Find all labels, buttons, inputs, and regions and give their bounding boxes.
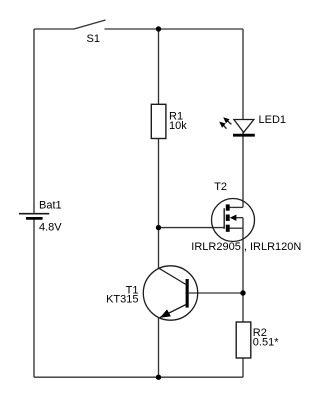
node gate junction xyxy=(156,225,161,230)
resistor R2 xyxy=(236,322,251,358)
battery Bat1 long plate (+) xyxy=(19,213,49,215)
wire R2 bottom lead xyxy=(242,358,244,377)
wire T1 emitter to bottom rail xyxy=(158,318,160,377)
resistor R1 xyxy=(151,104,166,138)
wire T1 base lead xyxy=(189,292,243,294)
wire top rail right segment xyxy=(105,28,244,30)
svg-text:IRLR2905 , IRLR120N: IRLR2905 , IRLR120N xyxy=(191,241,301,253)
wire middle rail: top node to R1 xyxy=(158,29,160,105)
node base/R2 junction xyxy=(240,290,245,295)
transistor T1 collector line xyxy=(159,268,187,285)
node top junction xyxy=(156,26,161,31)
wire T2 source inside xyxy=(230,227,243,229)
svg-text:Bat1: Bat1 xyxy=(39,200,62,212)
wire middle rail: R1 to T1 collector xyxy=(158,139,160,269)
switch S1 blade xyxy=(74,20,106,29)
svg-text:S1: S1 xyxy=(87,33,100,45)
svg-text:KT315: KT315 xyxy=(106,294,138,306)
wire left rail top (battery + to top) xyxy=(33,29,35,213)
svg-text:0.51*: 0.51* xyxy=(253,336,279,348)
node bottom junction xyxy=(156,375,161,380)
wire bottom rail xyxy=(34,376,243,378)
transistor T2 channel bar drain xyxy=(226,204,230,210)
wire T2 body-source connector xyxy=(242,218,244,229)
wire top rail left segment xyxy=(34,28,74,30)
wire LED cathode to T2 drain xyxy=(242,132,244,207)
LED1 light arrow upper xyxy=(223,117,231,124)
transistor T1 base bar xyxy=(186,279,189,308)
transistor T2 channel bar source xyxy=(226,225,230,232)
transistor T2 body arrow xyxy=(230,215,237,221)
transistor T1 emitter arrowhead xyxy=(160,309,171,317)
transistor T2 MOSFET circle xyxy=(212,199,255,242)
svg-text:10k: 10k xyxy=(169,120,187,132)
battery Bat1 short plate (-) xyxy=(26,217,43,220)
LED1 triangle xyxy=(234,120,254,133)
wire T2 gate lead xyxy=(159,227,225,229)
wire T2 drain inside xyxy=(230,206,243,208)
svg-text:4.8V: 4.8V xyxy=(39,222,62,234)
transistor T1 circle xyxy=(143,266,197,320)
wire T2 source to node / R2 top xyxy=(242,228,244,322)
svg-text:T2: T2 xyxy=(214,181,227,193)
transistor T1 emitter line xyxy=(160,305,186,318)
svg-text:LED1: LED1 xyxy=(259,114,287,126)
LED1 cathode bar xyxy=(233,134,255,137)
transistor T2 channel bar body xyxy=(226,215,230,221)
LED1 light arrow lower xyxy=(219,122,226,129)
wire right rail: top to LED xyxy=(242,29,244,120)
transistor T2 gate line xyxy=(223,208,225,229)
wire left rail bottom (battery - to bottom rail) xyxy=(33,219,35,377)
wire T2 body lead xyxy=(234,217,243,219)
